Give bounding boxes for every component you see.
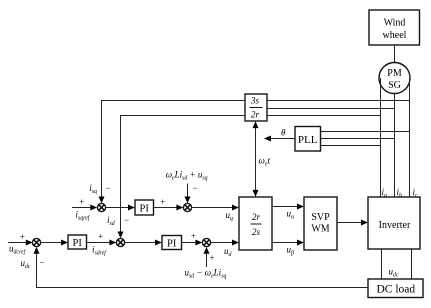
arrowhead into PI2	[61, 240, 68, 246]
PLL block	[295, 127, 321, 152]
wind wheel box W1	[369, 10, 420, 45]
arrowhead isd into sum S4	[118, 232, 124, 239]
wire udcref input	[8, 242, 31, 244]
svg-text:PLL: PLL	[298, 134, 318, 146]
svg-text:3s: 3s	[250, 96, 260, 106]
arrowhead into S2	[176, 205, 183, 211]
svg-text:usd − ωeLisq: usd − ωeLisq	[185, 268, 227, 280]
arrowhead feedforward d	[204, 247, 210, 254]
wire phase b tap to 3s/2r	[267, 108, 395, 110]
svg-text:2s: 2s	[252, 227, 261, 237]
wire S3 to PI2	[41, 242, 67, 244]
summing junction S2	[183, 203, 191, 211]
arrowhead isq into sum S1	[99, 197, 105, 204]
svg-text:ωet: ωet	[259, 156, 271, 168]
summing junction S3	[32, 238, 40, 246]
arrowhead into S5	[195, 240, 202, 246]
wire inverter to DC load right	[411, 249, 413, 279]
wire phase c vertical	[409, 78, 411, 197]
svg-text:−: −	[106, 183, 111, 193]
transform block 3s/2r	[245, 94, 267, 121]
wire phase b vertical	[394, 94, 396, 198]
svg-text:PI: PI	[140, 203, 150, 214]
load block DC load	[368, 279, 423, 298]
wire PI3 to S5	[182, 242, 202, 244]
svg-text:−: −	[124, 215, 129, 225]
svg-text:uq: uq	[226, 210, 234, 222]
wire S5 to 2r/2s (ud)	[211, 242, 238, 244]
arrowhead theta	[264, 136, 271, 142]
arrowhead uq into 2r/2s	[232, 205, 239, 211]
arrowhead into inverter	[361, 220, 368, 226]
wire wind wheel to PMSG	[394, 45, 396, 63]
wire ubeta	[272, 242, 303, 244]
svg-text:uβ: uβ	[287, 245, 295, 257]
svg-text:isqref: isqref	[76, 210, 91, 222]
svg-text:ωeLisd + usq: ωeLisd + usq	[166, 170, 208, 182]
controller PI3	[162, 236, 182, 250]
svg-text:WM: WM	[311, 224, 329, 235]
arrowhead into S4	[109, 240, 116, 246]
transform block 2r/2s	[239, 197, 272, 250]
svg-text:PI: PI	[167, 238, 177, 249]
arrowhead down into 2r/2s	[253, 190, 259, 197]
inverter block	[368, 197, 420, 249]
svg-text:+: +	[210, 253, 215, 263]
svg-text:2r: 2r	[251, 110, 260, 120]
svg-text:SVP: SVP	[311, 212, 330, 223]
wire ualpha	[272, 206, 303, 208]
wire isq feedback (top)	[102, 101, 246, 203]
svg-text:PM: PM	[387, 68, 402, 79]
svg-text:isdref: isdref	[92, 245, 107, 257]
wire PLL input phase b	[321, 138, 395, 140]
svg-text:isd: isd	[107, 215, 115, 227]
arrowhead ubeta	[297, 240, 304, 246]
wire S1 to PI1	[106, 207, 134, 209]
svg-text:Wind: Wind	[384, 18, 406, 29]
wire S2 to 2r/2s (uq)	[192, 207, 238, 209]
summing junction S5	[202, 238, 210, 246]
arrowhead ud into 2r/2s	[232, 240, 239, 246]
wire S4 to PI3	[125, 242, 161, 244]
svg-text:PI: PI	[73, 238, 83, 249]
wire udc feedback	[37, 248, 369, 287]
svg-text:isq: isq	[89, 183, 97, 195]
svg-text:−: −	[193, 183, 198, 193]
controller PI2	[68, 235, 87, 249]
svg-text:ud: ud	[224, 246, 232, 258]
wire theta output of PLL	[265, 138, 295, 140]
svg-text:DC load: DC load	[376, 284, 415, 296]
svg-text:udcref: udcref	[9, 244, 27, 256]
arrowhead feedforward q	[185, 197, 191, 204]
svg-text:wheel: wheel	[383, 30, 407, 41]
wire isd feedback (inner)	[121, 116, 246, 237]
svg-text:+: +	[160, 197, 165, 207]
modulator SVPWM	[304, 197, 337, 250]
arrowhead udc into S3	[34, 247, 40, 254]
wire PI2 to S4	[87, 242, 116, 244]
wire isqref input	[72, 207, 96, 209]
wire phase a vertical	[380, 78, 382, 197]
wire SVPWM to inverter	[337, 222, 367, 224]
svg-text:Inverter: Inverter	[379, 220, 411, 231]
svg-text:SG: SG	[388, 80, 401, 91]
arrowhead into PI3	[155, 240, 162, 246]
arrowhead into PI1	[128, 205, 135, 211]
arrowhead up into 3s/2r	[253, 121, 259, 128]
svg-text:−: −	[40, 258, 45, 268]
wire PLL input phase c	[321, 131, 410, 133]
wire omega_e t angle line (double arrow)	[255, 122, 257, 196]
generator PM SG	[379, 63, 410, 94]
wire PI1 to S2	[154, 207, 183, 209]
svg-text:θ: θ	[281, 128, 286, 138]
wire phase c tap to 3s/2r	[267, 100, 410, 102]
arrowhead ualpha	[297, 204, 304, 210]
wire inverter to DC load left	[381, 249, 383, 279]
svg-text:udc: udc	[389, 267, 399, 279]
svg-text:2r: 2r	[252, 212, 261, 222]
arrowhead into S1	[90, 205, 97, 211]
wire PLL input phase a	[321, 145, 381, 147]
wire phase a tap to 3s/2r	[267, 115, 381, 117]
svg-text:+: +	[191, 231, 196, 241]
svg-text:+: +	[79, 197, 84, 207]
summing junction S1	[97, 203, 105, 211]
svg-text:udc: udc	[21, 258, 31, 270]
svg-text:uα: uα	[287, 209, 296, 221]
svg-text:+: +	[20, 232, 25, 242]
arrowhead into S3	[26, 240, 33, 246]
wire feedforward q arrow	[187, 184, 189, 202]
summing junction S4	[116, 238, 124, 246]
svg-text:+: +	[98, 231, 103, 241]
controller PI1	[135, 200, 154, 215]
wire feedforward d arrow up	[206, 248, 208, 267]
